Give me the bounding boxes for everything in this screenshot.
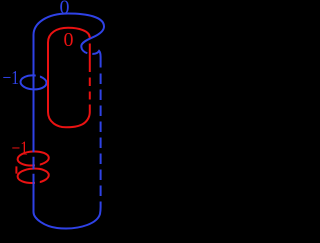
red meridian coil ellipse B <box>17 168 49 184</box>
gap where coil B passes behind blue strand <box>35 180 40 185</box>
red loop bottom-right corner and bottom arc <box>48 105 90 128</box>
svg-text:0: 0 <box>64 29 74 51</box>
gap where coil A passes behind blue strand <box>35 162 40 167</box>
red loop right side solid (below blue overpass gap) <box>89 44 91 73</box>
blue meridian ellipse (-1 framed) <box>20 75 47 90</box>
blue bottom arc of cylinder <box>34 207 101 229</box>
red loop right side dashed (back) <box>89 78 91 100</box>
blue top arc of cylinder <box>34 14 105 36</box>
svg-text:−1: −1 <box>12 138 29 160</box>
blue right side dashed (back of cylinder) <box>100 74 102 208</box>
blue left side of cylinder (wire, broken where red coil crosses in front) <box>33 35 35 212</box>
red loop left side <box>47 43 49 113</box>
gap in blue meridian top arc right of strand <box>36 73 40 78</box>
blue kink lower curl (passes behind red strand) <box>92 51 100 68</box>
red loop top arc <box>48 28 90 43</box>
red coil connector bar <box>15 166 17 173</box>
svg-text:−1: −1 <box>3 67 20 89</box>
blue kink upper curl (passes over red strand) <box>81 27 104 54</box>
svg-text:0: 0 <box>60 0 70 19</box>
red meridian coil ellipse A (around blue strand) <box>17 151 49 167</box>
